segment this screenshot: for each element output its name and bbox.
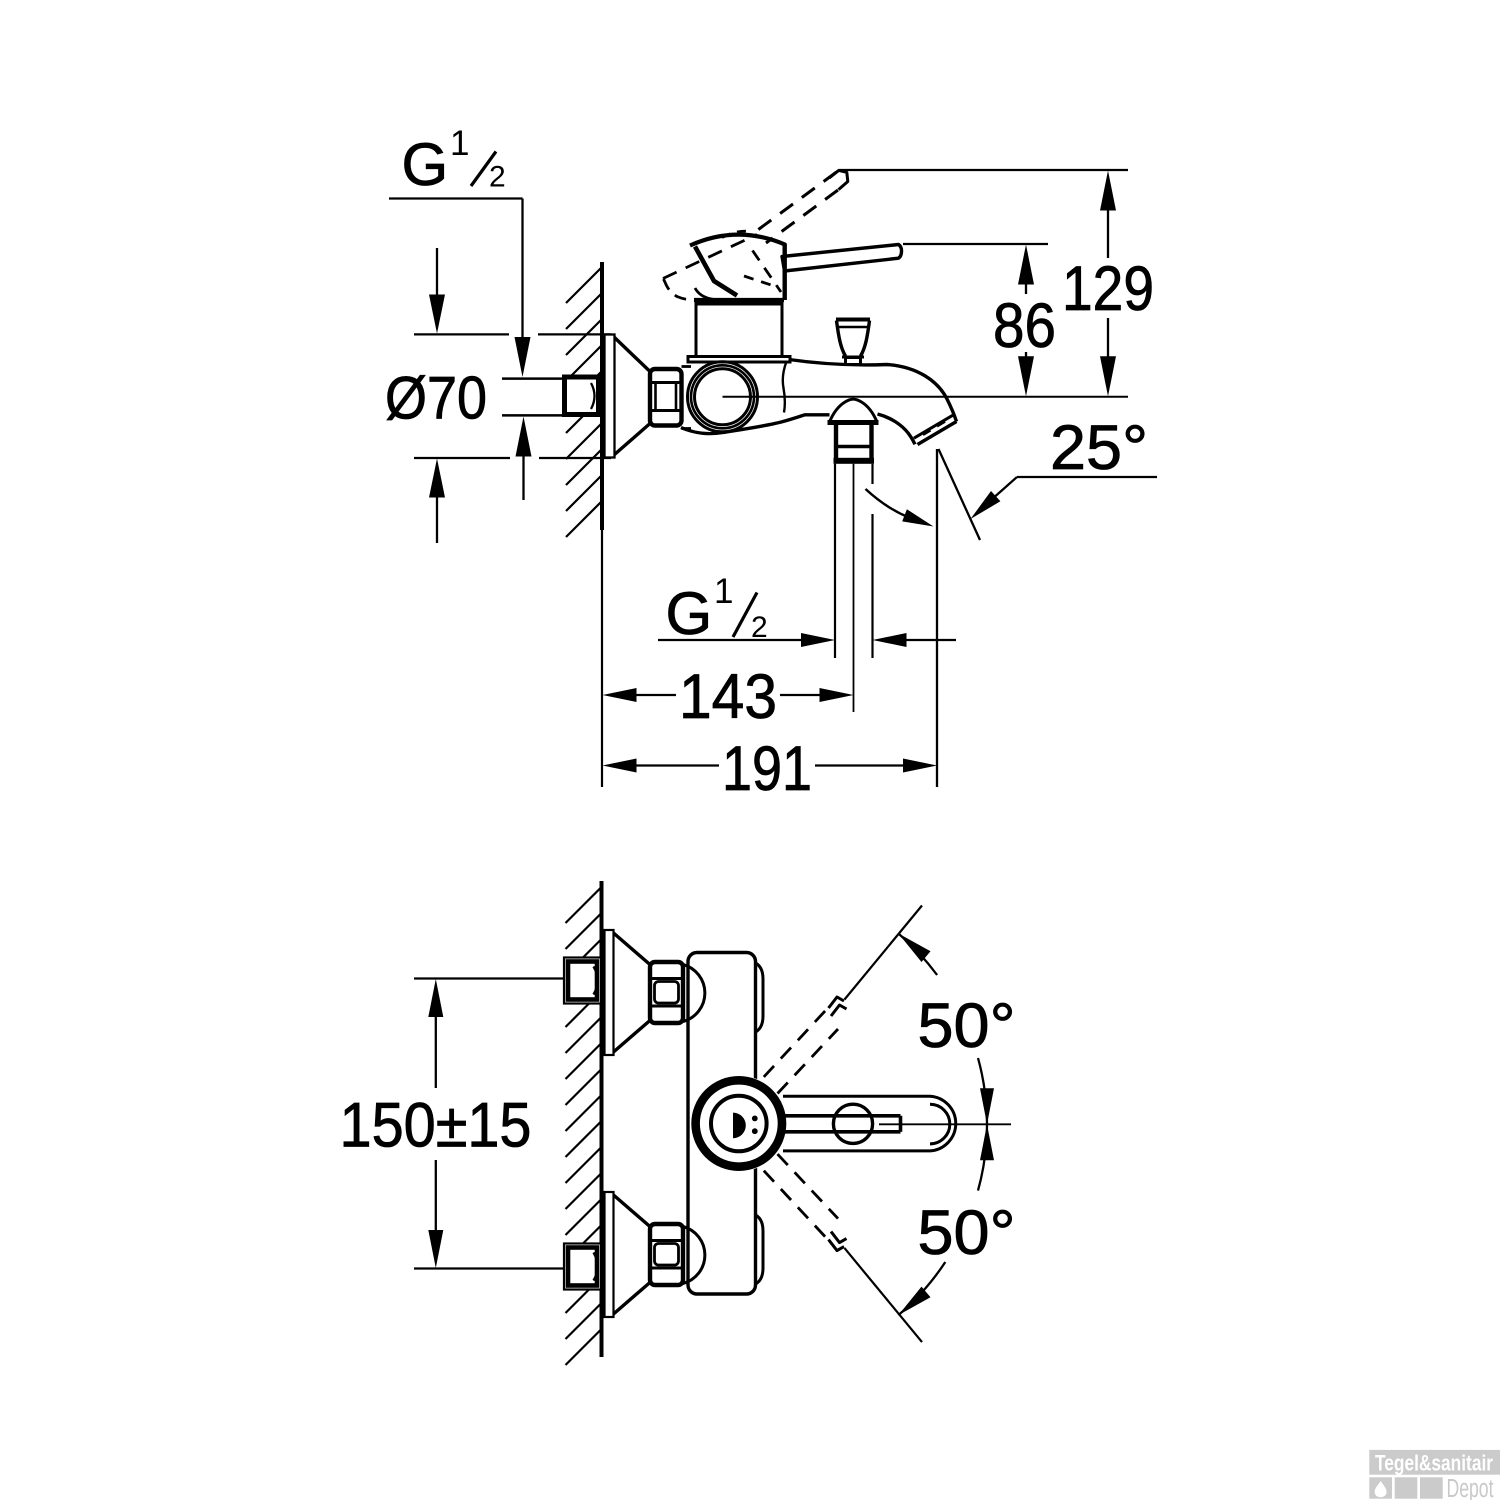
temperature symbol half-disc and dots inside hub [733,1113,758,1139]
dimension 25 degree spout angle [937,413,1157,787]
handle skirt (side view) [694,244,785,300]
svg-text:86: 86 [993,291,1056,361]
bath spout end face with aerator (side view) [878,414,957,445]
svg-text:129: 129 [1062,254,1154,324]
lower wall union: square, rosette, nut, boss (front view) [564,1192,705,1317]
wall rosette escutcheon cone (side view) [605,335,651,458]
dimension 191 [603,734,938,804]
svg-text:1: 1 [714,572,733,611]
raised handle position dashed (side view) [663,170,848,300]
shower outlet dome and collar (side view) [828,399,879,464]
dimension diameter 70 lines and arrows [414,248,611,543]
dimension 86 vertical [903,244,1056,396]
supply pipe stub G1/2 (side view) [502,377,599,415]
handle dome cap (side view) [690,235,786,246]
svg-text:G: G [666,580,713,647]
mixer body plate (front view) [688,953,763,1295]
svg-text:Ø70: Ø70 [385,365,487,432]
dimension 150 plus minus 15 [340,979,565,1269]
dimension 143 [603,662,854,732]
watermark Tegel&sanitair Depot [1369,1450,1500,1500]
cartridge housing (side view) [688,303,790,363]
svg-text:191: 191 [722,734,812,804]
svg-text:2: 2 [489,161,506,194]
union nut (side view) [650,367,691,429]
lever rotated down 50 dashed with break marks [764,1154,922,1342]
dimension G1/2 top label and leader [389,124,531,377]
svg-text:143: 143 [679,662,777,732]
centerline and bottom reference line y=397 [723,396,1129,398]
svg-text:50°: 50° [918,991,1016,1061]
wall section (front view) with hatching [566,881,602,1365]
lever centerline (front view) [879,1123,1011,1125]
handle lever horizontal (side view) [782,245,902,272]
svg-text:Depot: Depot [1447,1475,1494,1500]
diverter knob (side view) [836,320,870,365]
upper wall union: square, rosette, nut, boss (front view) [564,930,705,1055]
handle lever stadium (front view) [783,1096,956,1151]
body to spout barrel outline (side view) [681,360,957,434]
flow direction arc arrow below spout [866,489,934,527]
svg-text:50°: 50° [918,1198,1016,1268]
svg-text:Tegel&sanitair: Tegel&sanitair [1375,1451,1493,1476]
svg-text:1: 1 [450,124,469,163]
50 degree arc upper with arrowheads [898,934,994,1125]
svg-text:G: G [402,131,449,198]
wall section (side view) with hatching [566,262,602,787]
dimension 129 vertical right [839,170,1154,396]
shower hose connection lines (side view) [835,464,873,712]
lever rotated up 50 dashed with break marks [764,906,922,1094]
svg-text:25°: 25° [1050,413,1148,483]
dimension G1/2 supply arrows [516,417,532,501]
handle hub rings (front view) [691,1076,787,1172]
svg-text:150±15: 150±15 [340,1091,532,1161]
dimension G1/2 bottom label (hose thread) [658,572,956,647]
50 degree arc lower with arrowheads [898,1124,994,1315]
mixer body valve housing circle (side view) [688,362,758,432]
